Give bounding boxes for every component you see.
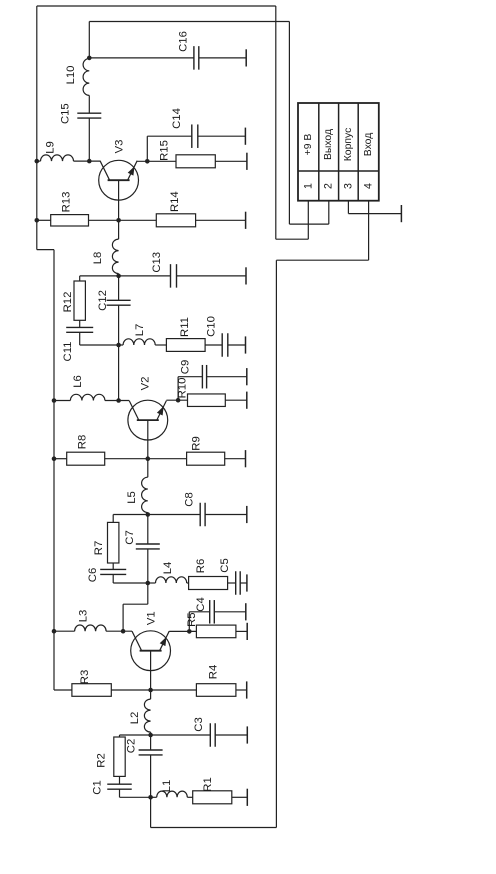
svg-text:C11: C11 (62, 342, 74, 362)
svg-text:Вход: Вход (363, 133, 374, 157)
svg-text:L1: L1 (161, 780, 173, 793)
svg-text:L2: L2 (129, 712, 141, 725)
svg-text:L3: L3 (78, 610, 90, 623)
svg-text:C9: C9 (179, 360, 191, 374)
svg-text:L8: L8 (92, 252, 104, 265)
svg-text:C5: C5 (219, 558, 231, 572)
svg-text:R6: R6 (195, 559, 207, 573)
svg-text:V3: V3 (114, 140, 126, 154)
svg-text:R1: R1 (202, 777, 214, 791)
svg-text:+9 В: +9 В (303, 134, 314, 156)
svg-text:L5: L5 (126, 491, 138, 504)
svg-text:L10: L10 (65, 66, 77, 85)
svg-text:C16: C16 (178, 31, 190, 52)
svg-text:R12: R12 (62, 292, 74, 313)
svg-text:L9: L9 (45, 141, 57, 154)
svg-text:C15: C15 (59, 103, 71, 124)
svg-text:C1: C1 (92, 780, 104, 794)
svg-text:C13: C13 (151, 252, 163, 273)
svg-text:R5: R5 (186, 612, 198, 626)
svg-text:C4: C4 (195, 597, 207, 611)
svg-text:1: 1 (302, 183, 314, 189)
svg-text:C3: C3 (193, 717, 205, 731)
svg-text:V2: V2 (140, 377, 152, 391)
svg-text:2: 2 (323, 183, 335, 189)
svg-text:L7: L7 (134, 324, 146, 337)
svg-text:R10: R10 (176, 378, 188, 399)
svg-text:R14: R14 (169, 191, 181, 212)
svg-text:C10: C10 (205, 316, 217, 337)
svg-text:R4: R4 (208, 665, 220, 679)
svg-text:C8: C8 (184, 492, 196, 506)
svg-text:V1: V1 (145, 611, 157, 625)
svg-text:C7: C7 (124, 530, 136, 544)
svg-text:Выход: Выход (323, 129, 334, 160)
svg-text:3: 3 (342, 183, 354, 189)
svg-text:L4: L4 (162, 562, 174, 575)
svg-text:L6: L6 (72, 375, 84, 388)
svg-text:Корпус: Корпус (343, 128, 354, 162)
svg-text:C2: C2 (126, 739, 138, 753)
svg-text:R13: R13 (60, 192, 72, 213)
svg-text:R7: R7 (93, 541, 105, 555)
svg-text:4: 4 (363, 183, 375, 189)
svg-text:R8: R8 (77, 435, 89, 449)
svg-text:C14: C14 (171, 108, 183, 129)
svg-text:C12: C12 (97, 290, 109, 311)
svg-text:R2: R2 (96, 753, 108, 767)
svg-text:R3: R3 (79, 670, 91, 684)
svg-text:R11: R11 (179, 317, 191, 337)
svg-text:R15: R15 (158, 140, 170, 161)
svg-text:R9: R9 (191, 436, 203, 450)
svg-text:C6: C6 (87, 568, 99, 582)
